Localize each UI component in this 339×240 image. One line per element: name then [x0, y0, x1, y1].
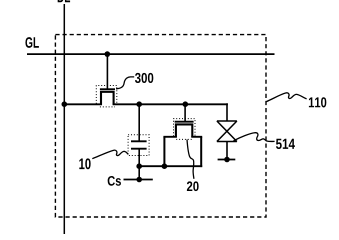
junction dot: capacitor lead x node line [136, 163, 142, 169]
wire GL gate line (horizontal) [27, 53, 275, 55]
wire: main node line, transistor 300 drain to LC corner [113, 103, 228, 105]
junction dot: transistor 20 left leg on node line [162, 163, 168, 169]
leader line to label 20 [187, 140, 194, 179]
wire DL data line (vertical) [63, 4, 65, 234]
wire: capacitor top lead [138, 104, 140, 141]
junction dot: LC lead on terminal bar [224, 157, 230, 163]
leader line to label 110 [266, 93, 306, 102]
LC element 514 bottom bar [217, 141, 237, 143]
transistor 20 channel (up-and-over path) [176, 124, 192, 137]
transistor 300 gate bar [100, 88, 115, 90]
transistor 20 drain lead (right segment) [191, 136, 202, 138]
junction dot: gate wire of 300 on GL [105, 51, 111, 57]
wire: main line corner down to LC element [226, 103, 228, 121]
wire: main node line, DL to transistor 300 source [64, 103, 103, 105]
transistor 20 dotted outline box (clipped by wires) [174, 119, 196, 137]
capacitor bottom plate [131, 148, 147, 150]
capacitor top plate [131, 140, 147, 142]
wire: transistor 20 left leg down to node line [163, 137, 165, 166]
LC element 514 top bar [217, 120, 237, 122]
transistor 300 dotted outline box (clipped by wires) [96, 86, 117, 104]
LC element 514 diagonal (top-right to bottom-left) [217, 121, 237, 142]
wire: transistor 20 right leg down to node line [200, 137, 202, 167]
label 300 [135, 73, 153, 83]
label 514 [276, 139, 295, 149]
label DL (cut off at top edge) [58, 0, 70, 2]
label 20 [187, 181, 199, 191]
label 10 [79, 158, 90, 169]
junction dot: DL x main line [62, 101, 68, 107]
junction dot: capacitor lead on Cs bar [136, 177, 142, 183]
transistor 20 gate bar [175, 121, 194, 123]
leader line to label 10 [92, 150, 128, 159]
Cs storage line bar [124, 179, 153, 181]
junction dot: gate wire of 20 on main line [183, 101, 189, 107]
label 110 [309, 97, 326, 107]
common terminal bar under LC element [218, 159, 236, 161]
wire: LC element bottom lead [226, 142, 228, 160]
leader line to label 514 [234, 133, 275, 142]
transistor 300 channel (up-and-over path) [101, 92, 114, 105]
wire: capacitor bottom lead down to Cs bar [138, 149, 140, 180]
wire: gate of transistor 20 down from main line [184, 104, 186, 121]
label Cs [108, 176, 121, 186]
wire: node line from capacitor to transistor 20 bottom [139, 165, 202, 167]
pixel boundary dashed box 110 [55, 35, 266, 217]
junction dot: capacitor branch on main line [136, 101, 142, 107]
LC element 514 diagonal (top-left to bottom-right) [217, 121, 237, 142]
leader line to label 300 [116, 77, 134, 89]
label GL [25, 37, 38, 48]
wire: gate of transistor 300 down from GL [106, 54, 108, 90]
capacitor dotted outline box 10 [128, 135, 149, 156]
transistor 20 source lead (left segment) [163, 136, 177, 138]
